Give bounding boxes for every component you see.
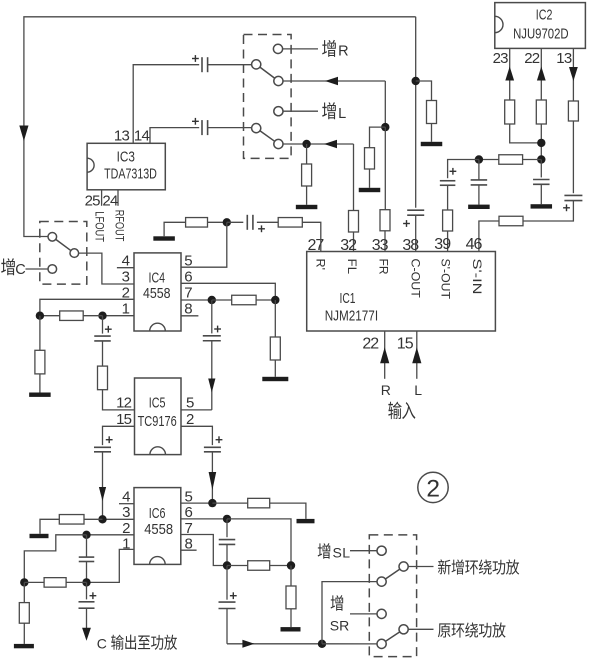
pin 4 stub xyxy=(117,267,134,269)
svg-text:13: 13 xyxy=(556,50,572,67)
label 增SL xyxy=(318,543,331,559)
svg-text:39: 39 xyxy=(434,236,451,253)
label 增L xyxy=(322,102,336,119)
resistor R' chain left xyxy=(186,218,208,228)
node S-OUT net xyxy=(537,155,545,163)
node IC6 pin 3 xyxy=(98,515,106,523)
capacitor S'-OUT filter xyxy=(478,160,480,180)
wire cap down to IC6 pin 5 node xyxy=(211,452,213,503)
svg-text:5: 5 xyxy=(184,253,192,270)
resistor FL load to ground xyxy=(306,144,308,164)
op-amp U IC1 NJM2177I xyxy=(307,252,496,332)
capacitor C-OUT (polarized) xyxy=(407,209,424,211)
switch S4 blade xyxy=(385,569,399,579)
arrow left on FR wire xyxy=(325,77,338,85)
node on FL wire xyxy=(302,140,310,148)
svg-text:TDA7313D: TDA7313D xyxy=(104,165,157,182)
node pin1 left xyxy=(36,312,44,320)
switch S5 fixed contact 增SR xyxy=(377,609,386,618)
svg-text:15: 15 xyxy=(116,411,132,428)
node pin6/7 join xyxy=(271,296,279,304)
svg-text:LFOUT: LFOUT xyxy=(93,211,107,242)
svg-text:R': R' xyxy=(313,259,325,271)
capacitor IC6a feedback xyxy=(86,535,88,557)
switch S5 common contact xyxy=(377,639,386,648)
node pin1 right xyxy=(98,312,106,320)
svg-text:2: 2 xyxy=(426,475,440,502)
svg-text:IC2: IC2 xyxy=(536,6,553,23)
wire IC4 pin 1 xyxy=(103,315,135,317)
svg-text:4: 4 xyxy=(122,489,130,506)
svg-text:23: 23 xyxy=(493,50,509,67)
wire cap to IC5 pin 5 xyxy=(211,341,213,410)
svg-text:TC9176: TC9176 xyxy=(138,413,177,430)
wire to 增L label xyxy=(283,110,318,112)
resistor R' chain right xyxy=(278,218,302,228)
wire IC6 pin 7 xyxy=(181,535,227,566)
dashed switch box 增C xyxy=(40,222,87,285)
node IC6 pin 6 xyxy=(223,515,231,523)
svg-text:22: 22 xyxy=(524,50,540,67)
svg-text:13: 13 xyxy=(114,128,130,145)
capacitor C output (polarized) xyxy=(86,582,88,599)
switch S2 common contact xyxy=(252,124,261,133)
capacitor IC5 left out (polarized) xyxy=(106,439,113,441)
svg-text:C-OUT: C-OUT xyxy=(408,259,420,298)
svg-text:IC6: IC6 xyxy=(149,505,166,522)
wire IC6 pin 6 xyxy=(181,518,227,520)
capacitor IC6b feedback xyxy=(226,519,228,537)
switch S3 fixed contact from loop xyxy=(48,233,57,242)
wire IC6 pin 1 loop xyxy=(87,549,135,582)
op-amp U IC5 TC9176 xyxy=(135,378,182,455)
resistor at pin 33 xyxy=(380,210,390,231)
svg-text:IC4: IC4 xyxy=(149,269,166,286)
wire pin6 to bleed xyxy=(227,519,291,566)
svg-text:14: 14 xyxy=(134,128,150,145)
wire C-OUT feedback loop top xyxy=(24,17,416,237)
node R' chain xyxy=(223,218,231,226)
wire C-OUT riser xyxy=(415,17,417,208)
arrow left on FL wire xyxy=(324,140,337,148)
wire S4 to 新增环绕功放 xyxy=(408,566,433,568)
wire IC6 pin 5 xyxy=(181,502,213,504)
switch S1 fixed contact to 增R xyxy=(273,44,282,53)
svg-text:3: 3 xyxy=(122,269,130,286)
pin 4 stub xyxy=(119,503,134,505)
svg-text:R: R xyxy=(381,382,391,398)
svg-text:24: 24 xyxy=(102,192,118,209)
wire pin22 resistor down xyxy=(540,124,542,160)
resistor to IC5 pin 12 xyxy=(102,341,104,366)
capacitor S-IN (polarized) xyxy=(564,194,582,196)
wire S'-OUT to coupling cap xyxy=(448,160,479,179)
svg-text:4558: 4558 xyxy=(144,521,173,538)
svg-text:L: L xyxy=(342,545,350,561)
capacitor IC5 right out (polarized) xyxy=(216,439,223,441)
node IC6 pin 5 xyxy=(208,499,216,507)
label 原环绕功放 xyxy=(438,623,451,637)
resistor to ground IC4a xyxy=(39,316,41,351)
svg-text:12: 12 xyxy=(116,395,132,412)
wire resistor to pin 46 xyxy=(479,221,499,252)
resistor pin67 to ground xyxy=(274,300,276,337)
wire FR down to pin 33 xyxy=(384,81,386,127)
label 增C xyxy=(1,258,15,275)
node C-OUT top xyxy=(412,77,420,85)
svg-text:IC5: IC5 xyxy=(149,395,166,412)
svg-text:L: L xyxy=(338,106,346,122)
switch S3 common contact xyxy=(70,249,79,258)
switch S2 fixed contact to 增L xyxy=(274,107,283,116)
wire IC5 pin 2 xyxy=(181,426,212,445)
svg-text:IC1: IC1 xyxy=(340,290,356,307)
wire node to bleed resistor xyxy=(416,81,432,101)
op-amp U IC6 4558 xyxy=(134,488,181,565)
node S output xyxy=(318,640,326,648)
svg-text:32: 32 xyxy=(340,237,357,254)
arrow up R input xyxy=(380,347,389,363)
wire resistor to IC1 pin 27 xyxy=(302,222,321,251)
wire IC3 pin 14 to coupling cap xyxy=(150,128,199,144)
svg-text:27: 27 xyxy=(308,237,325,254)
node C out xyxy=(82,578,90,586)
wire to 增R label xyxy=(283,48,318,50)
node IC6b out xyxy=(223,561,231,569)
wire FL down to pin 32 xyxy=(353,144,355,211)
svg-text:4: 4 xyxy=(122,253,130,270)
resistor FR load to ground xyxy=(370,127,386,148)
svg-text:NJU9702D: NJU9702D xyxy=(513,25,569,42)
wire IC4 pin 7 xyxy=(181,299,212,301)
switch S5 blade xyxy=(385,632,399,642)
ground pin6 bleed xyxy=(281,627,301,631)
node pin6 bleed xyxy=(287,561,295,569)
dashed switch box upper xyxy=(244,35,292,159)
svg-text:22: 22 xyxy=(362,336,379,353)
ground S'-OUT filter xyxy=(468,205,490,209)
ground IC6a xyxy=(14,644,34,648)
ground IC6 pin3 xyxy=(30,534,49,538)
wire resistor to node xyxy=(479,159,499,161)
svg-text:4558: 4558 xyxy=(143,285,171,302)
wire IC6 pin 2 loop xyxy=(87,534,135,536)
wire S5 to 原环绕功放 xyxy=(408,628,433,630)
op-amp U IC3 TDA7313D xyxy=(87,143,165,190)
label 增SR xyxy=(331,595,344,611)
switch S2 blade xyxy=(260,131,275,142)
wire resistor to node xyxy=(208,221,225,223)
resistor IC6a input xyxy=(24,581,44,583)
label 新增环绕功放 xyxy=(438,559,451,574)
svg-text:25: 25 xyxy=(85,192,101,209)
wire S output to switch xyxy=(227,643,322,645)
node S'-OUT net xyxy=(475,155,483,163)
svg-text:IC3: IC3 xyxy=(117,148,135,165)
switch S1 throw contact xyxy=(274,76,283,85)
svg-text:1: 1 xyxy=(122,300,130,317)
resistor pin 23 xyxy=(505,100,515,124)
resistor pin5 chain xyxy=(212,502,247,504)
svg-text:FL: FL xyxy=(345,259,357,275)
resistor IC6 pin3 to ground xyxy=(84,518,103,520)
capacitor S-OUT filter xyxy=(540,160,542,178)
svg-text:15: 15 xyxy=(397,336,414,353)
resistor feedback IC4b xyxy=(212,299,232,301)
capacitor IC4a out (polarized) xyxy=(102,316,104,334)
node pin7 xyxy=(208,296,216,304)
svg-text:46: 46 xyxy=(466,236,483,253)
wire cap to switch L xyxy=(208,127,252,129)
wire cap to switch R xyxy=(208,64,252,66)
svg-text:R: R xyxy=(338,44,348,60)
svg-text:8: 8 xyxy=(184,300,192,317)
op-amp U IC2 NJU9702D xyxy=(495,3,586,49)
arrow up pin 22 xyxy=(537,67,546,81)
wire up to switch 4 throw xyxy=(322,582,377,644)
switch S4 fixed contact 增SL xyxy=(377,546,386,555)
wire 增SL to switch xyxy=(350,550,377,552)
resistor pin 13 xyxy=(568,101,578,121)
resistor C-OUT bleed xyxy=(427,101,437,124)
svg-text:NJM2177I: NJM2177I xyxy=(325,307,378,324)
svg-text:33: 33 xyxy=(372,237,389,254)
wire 增SR to switch xyxy=(350,613,377,615)
arrow down pin 13 xyxy=(569,67,578,81)
resistor S-OUT series xyxy=(499,155,523,165)
pin 24 stub xyxy=(117,190,119,206)
wire into IC5 pin 5 xyxy=(181,409,212,411)
wire cap to resistor xyxy=(257,221,278,223)
switch S1 blade xyxy=(260,67,275,78)
switch S1 common contact xyxy=(252,60,261,69)
ground pin67 xyxy=(262,377,288,381)
capacitor pin 39 coupling (polarized) xyxy=(450,170,457,172)
svg-text:S: S xyxy=(333,545,342,561)
ground S-OUT filter xyxy=(531,204,553,208)
wire IC2 pin 13 xyxy=(572,48,574,101)
svg-text:L: L xyxy=(414,382,422,398)
capacitor S output (polarized) xyxy=(226,566,228,600)
pin 8 stub xyxy=(181,315,198,317)
switch S3 throw contact 增C xyxy=(48,265,57,274)
arrow C output xyxy=(82,628,91,641)
ground R' chain xyxy=(153,236,175,240)
node FR branch xyxy=(381,123,389,131)
label 增R xyxy=(322,40,336,57)
capacitor coupling L (polarized) xyxy=(201,120,203,135)
wire node to cap xyxy=(227,221,244,223)
switch S4 common contact xyxy=(377,577,386,586)
capacitor IC4b out (polarized) xyxy=(211,300,213,333)
arrow down to IC6 xyxy=(99,487,106,501)
svg-text:7: 7 xyxy=(184,284,192,301)
wire IC4 pin 6 loop xyxy=(181,283,275,300)
arrow down on left feedback wire xyxy=(19,126,28,142)
wire IC2 pin 22 xyxy=(540,48,542,100)
wire S2 to IC1 pin 32 FL xyxy=(283,143,353,145)
arrow up pin 23 xyxy=(505,67,514,81)
wire cap to pin 39 resistor xyxy=(447,185,449,210)
node pin23/22 join xyxy=(537,139,545,147)
svg-text:S'-IN: S'-IN xyxy=(470,259,482,295)
ground C-OUT bleed xyxy=(421,142,443,146)
wire S3 common to IC4 pin 3 xyxy=(79,253,134,284)
wire S1 to IC1 pin 33 FR xyxy=(283,80,385,82)
wire ground to resistor xyxy=(164,222,186,236)
resistor IC6a to ground xyxy=(23,582,25,602)
wire to IC5 pin 12 xyxy=(103,390,135,410)
resistor S-IN series xyxy=(499,216,523,226)
ground FR load xyxy=(359,188,381,192)
wire IC6 pin 3 xyxy=(103,518,135,520)
svg-text:RFOUT: RFOUT xyxy=(113,210,127,242)
wire IC3 pin 13 to coupling cap xyxy=(133,65,199,144)
arrow right S output xyxy=(242,640,254,648)
wire IC1 pin 15 L input xyxy=(416,331,418,379)
wire cap to S-IN resistor xyxy=(523,201,573,221)
wire pin13 resistor to cap xyxy=(572,121,574,193)
op-amp U IC4 4558 xyxy=(134,253,181,331)
capacitor coupling R (polarized) xyxy=(201,57,203,72)
arrow up L input xyxy=(412,347,421,363)
wire IC5 pin 15 xyxy=(103,426,135,445)
svg-text:5: 5 xyxy=(186,395,194,412)
resistor pin 22 xyxy=(536,100,546,124)
node IC6 pin 2 xyxy=(82,531,90,539)
wire pin2 staircase xyxy=(24,535,86,583)
resistor feedback IC4a xyxy=(83,315,102,317)
svg-text:S'-OUT: S'-OUT xyxy=(439,259,451,300)
dashed switch box lower xyxy=(369,535,416,657)
switch S3 blade xyxy=(56,239,71,250)
resistor pin 39 xyxy=(443,210,453,231)
switch S2 throw contact xyxy=(274,139,283,148)
svg-text:C: C xyxy=(97,636,107,652)
pin 8 stub xyxy=(181,549,197,551)
resistor pin6 bleed to ground xyxy=(290,566,292,587)
capacitor R' coupling (polarized) xyxy=(246,215,248,230)
ground FL load xyxy=(296,205,318,209)
arrow down to IC5 pin 5 xyxy=(208,379,215,393)
switch S4 throw contact xyxy=(399,562,408,571)
wire to pin 33 resistor xyxy=(384,127,386,210)
wire node down to IC4 pin 5 xyxy=(181,222,227,267)
svg-text:SR: SR xyxy=(330,618,349,634)
wire IC4 pin 2 loop xyxy=(40,299,134,315)
svg-text:3: 3 xyxy=(122,504,130,521)
ground pin5 chain xyxy=(297,519,315,523)
resistor at pin 32 xyxy=(349,211,359,233)
arrow down to IC6 pin 5 xyxy=(209,472,217,490)
wire 增C label to switch xyxy=(26,268,49,270)
svg-text:FR: FR xyxy=(376,259,388,275)
svg-text:C: C xyxy=(15,262,25,278)
wire IC1 pin 22 R input xyxy=(384,331,386,379)
figure label circled 2 xyxy=(418,472,448,502)
pin 25 stub xyxy=(101,190,103,206)
wire cap down to IC6 pin 3 node xyxy=(102,452,104,519)
ground IC4a xyxy=(29,393,51,397)
svg-text:2: 2 xyxy=(186,411,194,428)
label 输入 xyxy=(388,402,401,420)
switch S5 throw contact xyxy=(399,625,408,634)
wire pin23 resistor to node xyxy=(510,124,542,143)
resistor IC6b feedback xyxy=(227,565,248,567)
wire IC2 pin 23 xyxy=(509,48,511,100)
wire node to switch 5 throw xyxy=(322,643,377,645)
node left xyxy=(20,578,28,586)
svg-text:38: 38 xyxy=(402,237,419,254)
wire node to resistor xyxy=(523,159,542,161)
